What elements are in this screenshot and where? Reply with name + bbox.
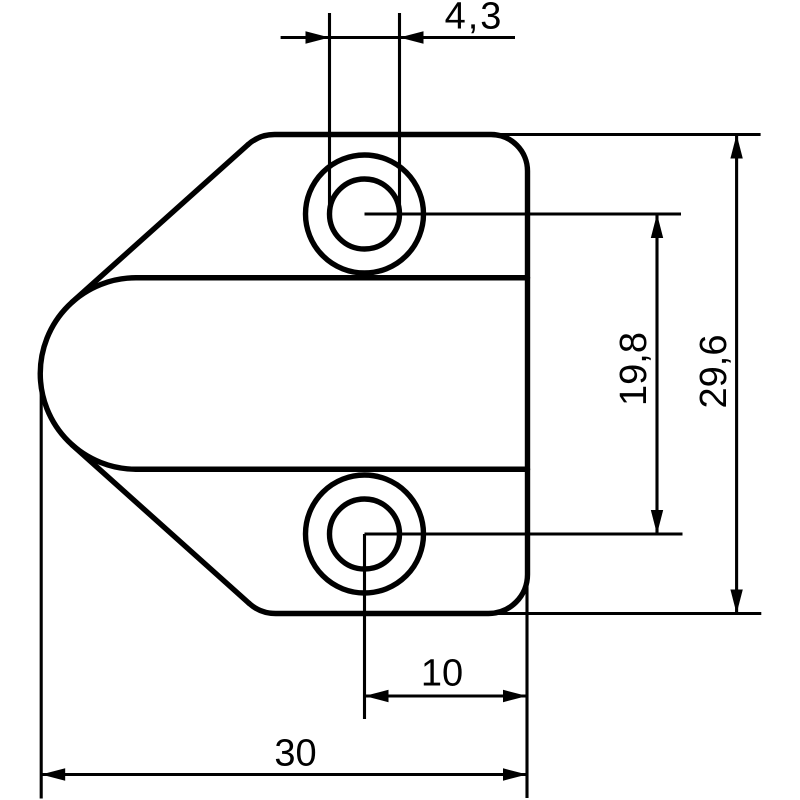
dimension line 19,8 (655, 214, 658, 534)
extension line right of 4,3 (398, 13, 401, 215)
arrow 19,8 bottom (651, 510, 663, 534)
top hole inner circle (330, 179, 400, 249)
bottom hole vertical centre line (363, 534, 366, 719)
upper slot line (136, 275, 528, 280)
extension line left of 4,3 (328, 13, 331, 215)
arrow 10 left (365, 690, 389, 702)
bottom hole inner circle (330, 499, 400, 569)
arrow 4,3 left (306, 31, 330, 43)
svg-text:4,3: 4,3 (445, 0, 504, 38)
part outline: top edge, rounded corners, right edge, bottom edge, left fillets (248, 135, 528, 614)
arrow 19,8 top (651, 214, 663, 238)
dimension line 30 (41, 773, 527, 776)
arrow 10 right (503, 690, 527, 702)
dimension line 4,3 (281, 36, 515, 39)
upper-left diagonal edge (72, 145, 248, 302)
right extension line for 10 and 30 (525, 574, 528, 798)
arrow 30 left (41, 768, 65, 780)
dimension line 29,6 (735, 135, 738, 614)
arrow 4,3 right (400, 31, 424, 43)
svg-text:30: 30 (274, 733, 316, 775)
arrow 29,6 bottom (730, 590, 742, 614)
bottom hole outer circle (306, 475, 424, 593)
bottom hole centre line (365, 532, 683, 535)
top hole outer circle (306, 155, 424, 273)
arrow 30 right (503, 768, 527, 780)
svg-text:10: 10 (421, 653, 463, 695)
top hole centre line (365, 212, 682, 215)
svg-text:29,6: 29,6 (693, 335, 735, 409)
lower-left diagonal edge (72, 445, 249, 603)
bottom edge extension line (489, 612, 762, 615)
arrow 29,6 top (730, 135, 742, 159)
svg-text:19,8: 19,8 (613, 332, 655, 406)
left semicircular edge (40, 278, 136, 470)
left extension line for 30 (40, 378, 43, 799)
lower slot line (136, 467, 528, 472)
dimension line 10 (365, 694, 528, 697)
top edge extension line (491, 133, 761, 136)
